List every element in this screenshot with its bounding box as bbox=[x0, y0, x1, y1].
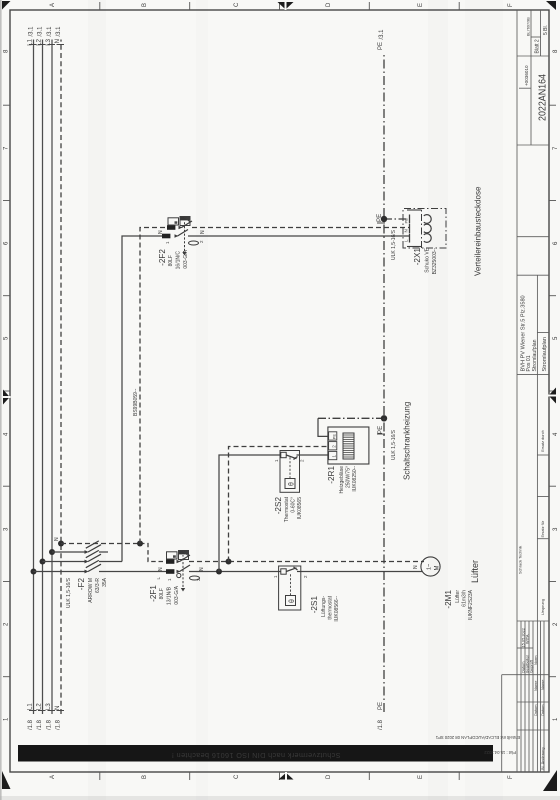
socket 2X1 N terminal bar bbox=[409, 224, 411, 233]
junction dot heater PE tap bbox=[381, 415, 387, 421]
svg-text:1~: 1~ bbox=[427, 564, 433, 570]
svg-text:61m3/h: 61m3/h bbox=[462, 590, 468, 607]
svg-text:35A: 35A bbox=[102, 577, 108, 587]
breaker 2F1 N blade bbox=[177, 555, 191, 563]
svg-text:Plot : 15.04.2022: Plot : 15.04.2022 bbox=[484, 750, 516, 755]
svg-text:L2: L2 bbox=[37, 703, 43, 710]
wire F2 pole2 out bbox=[99, 561, 122, 563]
svg-text:/1.8: /1.8 bbox=[37, 719, 43, 730]
svg-text:5: 5 bbox=[553, 336, 559, 340]
svg-text:-2X1: -2X1 bbox=[413, 248, 422, 266]
wire long L feed to 2F2 bbox=[122, 236, 162, 562]
svg-text:PE: PE bbox=[376, 214, 383, 222]
breaker 2F2 toroid coil bbox=[189, 241, 199, 245]
svg-text:PE: PE bbox=[378, 42, 384, 50]
junction dot heater L branch bbox=[216, 569, 222, 575]
junction dot heater N branch bbox=[226, 559, 232, 565]
svg-text:6: 6 bbox=[553, 241, 559, 245]
svg-text:E: E bbox=[418, 3, 424, 7]
socket 2X1 inner boundary line (dash-dot) bbox=[421, 209, 423, 249]
svg-text:003-G/A: 003-G/A bbox=[183, 249, 189, 268]
svg-text:ULK 1,5-16/S: ULK 1,5-16/S bbox=[391, 229, 397, 260]
wire F2 pole3 out stub bbox=[99, 551, 108, 553]
svg-text:8: 8 bbox=[553, 49, 559, 53]
svg-text:Norm: Norm bbox=[533, 655, 538, 665]
socket 2X1 L terminal bar bbox=[409, 234, 411, 243]
svg-text:PE: PE bbox=[378, 702, 384, 710]
svg-text:Ursprung: Ursprung bbox=[540, 599, 545, 615]
svg-text:Datum: Datum bbox=[540, 705, 545, 716]
breaker 2F2 N blade bbox=[179, 221, 193, 229]
svg-text:5: 5 bbox=[4, 336, 10, 340]
heater 2R1 terminal 1 bbox=[329, 451, 337, 459]
svg-text:Bl. Änderung: Bl. Änderung bbox=[540, 748, 545, 771]
svg-text:ULK 1,5-16/S: ULK 1,5-16/S bbox=[66, 577, 72, 608]
svg-text:2: 2 bbox=[331, 445, 336, 448]
svg-text:IUKNF2S23A: IUKNF2S23A bbox=[468, 589, 474, 620]
svg-text:1: 1 bbox=[167, 578, 172, 581]
junction dot L1 tap bbox=[31, 569, 37, 575]
svg-text:N: N bbox=[158, 567, 164, 571]
svg-text:16/1N/C: 16/1N/C bbox=[176, 251, 182, 270]
svg-text:Schrack Technik: Schrack Technik bbox=[518, 546, 523, 574]
svg-text:Thermostat: Thermostat bbox=[284, 496, 290, 522]
junction dot L3 tap bbox=[49, 549, 55, 555]
wire F2 pole3 drop from L3 bbox=[52, 551, 87, 553]
wire heater N branch (dashed) bbox=[229, 447, 329, 562]
socket 2X1 boundary (dash-dot) bbox=[403, 209, 446, 249]
svg-text:N: N bbox=[55, 706, 61, 710]
socket 2X1 L contact hook bbox=[424, 234, 431, 243]
wire long N feed to 2F2 (dashed) bbox=[140, 228, 167, 544]
svg-text:PE: PE bbox=[331, 434, 336, 440]
switch F2 pole3 blade bbox=[85, 541, 102, 554]
title block lines bbox=[502, 10, 549, 772]
svg-text:BZ325003--: BZ325003-- bbox=[432, 248, 438, 275]
svg-text:2: 2 bbox=[303, 575, 308, 578]
wire L3 bus bbox=[51, 40, 53, 715]
wire socket L drop bbox=[188, 235, 410, 237]
svg-text:/3.1: /3.1 bbox=[379, 29, 385, 40]
svg-text:/3.1: /3.1 bbox=[38, 26, 44, 37]
svg-text:63/3-R: 63/3-R bbox=[95, 578, 101, 593]
svg-text:M: M bbox=[435, 566, 441, 571]
svg-text:2: 2 bbox=[4, 622, 10, 626]
switch F2 pole2 blade bbox=[85, 550, 102, 563]
wire heater PE connection bbox=[318, 418, 329, 436]
svg-text:3: 3 bbox=[4, 527, 10, 531]
svg-text:+0036010: +0036010 bbox=[524, 65, 529, 86]
svg-text:IUK08250--: IUK08250-- bbox=[352, 466, 358, 492]
grid column ticks top bbox=[3, 105, 10, 677]
svg-text:C: C bbox=[234, 774, 240, 779]
svg-text:2: 2 bbox=[553, 622, 559, 626]
wire F2 pole1 out bbox=[99, 571, 166, 573]
svg-text:Lüftungs-: Lüftungs- bbox=[321, 596, 327, 617]
title text Datum row bbox=[521, 430, 545, 770]
wire F2 pole1 drop from L1 bbox=[34, 571, 88, 573]
wire heater L branch bbox=[219, 455, 281, 572]
svg-text:D: D bbox=[326, 2, 332, 7]
svg-text:003-G/A: 003-G/A bbox=[174, 585, 180, 604]
svg-text:-2M1: -2M1 bbox=[444, 590, 453, 609]
svg-text:N: N bbox=[55, 39, 61, 43]
grid column ticks bottom bbox=[549, 105, 556, 677]
svg-text:1: 1 bbox=[273, 575, 278, 578]
svg-text:1: 1 bbox=[165, 241, 170, 244]
svg-text:PE: PE bbox=[377, 426, 384, 434]
svg-text:/1.8: /1.8 bbox=[378, 719, 384, 730]
thermostat 2S1 contact bbox=[281, 567, 301, 574]
svg-text:/1.8: /1.8 bbox=[47, 719, 53, 730]
svg-text:θ: θ bbox=[289, 482, 296, 486]
svg-text:Datum: Datum bbox=[533, 705, 538, 716]
svg-text:WITA: WITA bbox=[525, 634, 530, 644]
svg-text:N: N bbox=[404, 229, 409, 232]
svg-text:7: 7 bbox=[553, 146, 559, 150]
fold mark triangle bottom-right corner bbox=[546, 1, 556, 10]
svg-text:250W/75°: 250W/75° bbox=[346, 466, 352, 488]
svg-text:3: 3 bbox=[553, 527, 559, 531]
svg-text:/1.8: /1.8 bbox=[56, 719, 62, 730]
svg-text:θ: θ bbox=[289, 599, 296, 603]
breaker 2F2 mechanical link bbox=[182, 221, 186, 256]
svg-text:0-60C°: 0-60C° bbox=[291, 497, 297, 513]
wire fan N path (dashed) bbox=[189, 561, 424, 563]
grid row labels left bbox=[50, 774, 514, 779]
heater 2R1 element bbox=[343, 433, 354, 459]
svg-text:-2F2: -2F2 bbox=[158, 249, 167, 266]
svg-text:Blatt 2: Blatt 2 bbox=[535, 39, 541, 53]
fold mark triangle left-center bbox=[279, 772, 294, 780]
svg-text:Verteilereinbausteckdose: Verteilereinbausteckdose bbox=[474, 186, 483, 276]
svg-text:5 Bl.: 5 Bl. bbox=[543, 25, 549, 35]
grid row ticks left bbox=[100, 772, 459, 780]
thermostat 2S2 link (dashed) bbox=[289, 457, 291, 479]
heater 2R1 terminal 2 bbox=[329, 442, 337, 450]
wire F2 pole2 drop from L2 bbox=[43, 561, 88, 563]
svg-text:B: B bbox=[142, 775, 148, 779]
svg-text:Ersatz für: Ersatz für bbox=[540, 520, 545, 537]
fold mark triangle right-center bbox=[278, 2, 294, 11]
wire L2 bus bbox=[42, 40, 44, 715]
junction dot socket PE tap bbox=[381, 216, 387, 222]
thermostat 2S1 link (dashed) bbox=[290, 573, 292, 596]
breaker 2F2 trip box bbox=[180, 217, 190, 226]
wire N bus (dashed) bbox=[60, 40, 62, 715]
switch F2 pole1 blade bbox=[85, 560, 102, 573]
svg-text:2: 2 bbox=[199, 240, 204, 243]
breaker 2F1 coil bbox=[177, 573, 181, 577]
svg-text:4: 4 bbox=[553, 432, 559, 436]
svg-text:BS99B059--: BS99B059-- bbox=[133, 388, 139, 416]
svg-text:Schuko VE: Schuko VE bbox=[425, 247, 431, 272]
svg-text:Lüfter: Lüfter bbox=[455, 590, 461, 603]
socket 2X1 side bars bbox=[407, 246, 422, 248]
svg-text:N: N bbox=[413, 565, 419, 569]
svg-text:IUK08565: IUK08565 bbox=[297, 497, 303, 519]
svg-text:2: 2 bbox=[196, 578, 201, 581]
svg-text:A: A bbox=[50, 775, 56, 779]
svg-text:F: F bbox=[508, 3, 514, 7]
breaker 2F1 test box bbox=[167, 552, 178, 559]
svg-text:thermostat: thermostat bbox=[328, 595, 334, 619]
svg-text:2: 2 bbox=[300, 459, 305, 462]
svg-text:6: 6 bbox=[4, 241, 10, 245]
svg-text:B: B bbox=[142, 3, 148, 7]
svg-text:E: E bbox=[418, 775, 424, 779]
svg-text:IUK08566--: IUK08566-- bbox=[334, 596, 340, 622]
thermostat 2S1 box bbox=[279, 566, 301, 610]
svg-text:Erstellt mit ELCAD/AUCOPLAN 08: Erstellt mit ELCAD/AUCOPLAN 08 2020 SP1 bbox=[435, 735, 520, 740]
socket 2X1 PE terminal bar bbox=[409, 215, 411, 224]
svg-text:13/1N/B: 13/1N/B bbox=[167, 586, 173, 605]
fold mark triangle top-center bbox=[3, 390, 11, 405]
junction dot N tap bbox=[58, 541, 64, 547]
thermostat 2S1 sensor box bbox=[286, 596, 297, 606]
svg-text:Stromlaufplan: Stromlaufplan bbox=[532, 339, 538, 371]
svg-text:L3: L3 bbox=[46, 703, 52, 710]
svg-text:1: 1 bbox=[4, 717, 10, 721]
svg-text:1: 1 bbox=[331, 455, 336, 458]
svg-text:N: N bbox=[158, 230, 164, 234]
grid row ticks right bbox=[100, 2, 459, 10]
breaker 2F1 N terminal bbox=[166, 559, 174, 564]
fold mark triangle top-right corner bbox=[2, 1, 11, 10]
PE bus (dash-dot) bbox=[383, 52, 385, 712]
svg-text:-2F1: -2F1 bbox=[149, 585, 158, 602]
svg-text:2022AN164: 2022AN164 bbox=[538, 74, 549, 121]
svg-text:PE: PE bbox=[404, 218, 409, 224]
wire N drop (dashed) bbox=[61, 543, 140, 545]
svg-text:/3.1: /3.1 bbox=[56, 26, 62, 37]
wire socket PE drop (dash-dot) bbox=[384, 218, 410, 220]
svg-text:N: N bbox=[200, 230, 206, 234]
wire heater PE riser (dash-dot) bbox=[318, 417, 384, 419]
svg-text:8: 8 bbox=[4, 49, 10, 53]
thermostat 2S2 contact bbox=[281, 452, 300, 459]
svg-text:80LF: 80LF bbox=[159, 588, 165, 599]
svg-text:ULK 1,5-16/S: ULK 1,5-16/S bbox=[391, 429, 397, 460]
svg-text:Lüfter: Lüfter bbox=[470, 560, 480, 583]
svg-text:L: L bbox=[156, 577, 161, 580]
thermostat 2S2 box bbox=[280, 451, 300, 493]
grid column labels bottom bbox=[553, 49, 559, 721]
breaker 2F1 L blade bbox=[177, 565, 191, 573]
svg-text:1: 1 bbox=[274, 459, 279, 462]
wire L1 bus bbox=[33, 40, 35, 715]
svg-text:Ersatz durch: Ersatz durch bbox=[540, 430, 545, 452]
heater 2R1 box bbox=[328, 427, 369, 464]
svg-text:4: 4 bbox=[4, 432, 10, 436]
wire 2S2 to heater bbox=[300, 454, 329, 456]
svg-text:/1.8: /1.8 bbox=[28, 719, 34, 730]
fold mark triangle top-left corner bbox=[2, 771, 11, 789]
svg-text:Stromlaufplan: Stromlaufplan bbox=[542, 337, 548, 372]
socket 2X1 PE contact hook bbox=[424, 215, 431, 224]
svg-text:Schaltschrankheizung: Schaltschrankheizung bbox=[403, 402, 412, 480]
svg-text:L1: L1 bbox=[28, 703, 34, 710]
svg-text:7: 7 bbox=[4, 146, 10, 150]
breaker 2F1 trip box bbox=[179, 551, 189, 560]
svg-text:L: L bbox=[404, 239, 409, 242]
svg-text:N: N bbox=[54, 537, 60, 541]
breaker 2F2 L terminal bbox=[162, 234, 170, 239]
heater 2R1 terminal PE bbox=[329, 432, 337, 440]
breaker 2F1 toroid coil bbox=[190, 576, 200, 580]
breaker 2F1 L terminal bbox=[166, 569, 174, 574]
svg-text:BL7697/9B: BL7697/9B bbox=[527, 17, 531, 36]
svg-text:Name: Name bbox=[540, 680, 545, 690]
grid column labels top bbox=[4, 49, 10, 721]
svg-text:C: C bbox=[234, 2, 240, 7]
wire socket N drop (dashed) bbox=[192, 227, 410, 229]
svg-text:-2S2: -2S2 bbox=[274, 497, 283, 515]
breaker 2F2 test box bbox=[168, 218, 179, 225]
Schutzvermerk bar bbox=[18, 745, 493, 762]
svg-text:/3.1: /3.1 bbox=[29, 26, 35, 37]
svg-text:-2R1: -2R1 bbox=[327, 466, 336, 484]
svg-text:F: F bbox=[508, 775, 514, 779]
breaker 2F1 mechanical link bbox=[181, 555, 185, 592]
svg-text:ARROW M: ARROW M bbox=[88, 578, 94, 603]
wire fan L path bbox=[189, 571, 281, 573]
motor 2M1 circle bbox=[421, 557, 441, 576]
thermostat 2S2 sensor box bbox=[285, 479, 296, 489]
svg-text:Name: Name bbox=[533, 681, 538, 691]
breaker 2F2 N terminal bbox=[167, 225, 175, 230]
svg-text:-F2: -F2 bbox=[77, 578, 86, 591]
svg-text:D: D bbox=[326, 774, 332, 779]
junction dot N branch split bbox=[137, 541, 143, 547]
junction dot L2 tap bbox=[40, 559, 46, 565]
svg-text:N: N bbox=[199, 567, 205, 571]
wire 2F1 N feed jog (dashed) bbox=[140, 544, 165, 562]
svg-text:Heizgebläse: Heizgebläse bbox=[339, 466, 345, 494]
socket 2X1 N contact hook bbox=[424, 224, 431, 233]
svg-text:1: 1 bbox=[553, 717, 559, 721]
grid row labels right bbox=[50, 2, 514, 7]
svg-text:A: A bbox=[50, 3, 56, 7]
svg-text:/3.1: /3.1 bbox=[47, 26, 53, 37]
breaker 2F2 L blade bbox=[175, 230, 189, 238]
fold mark triangle bottom-left corner bbox=[543, 770, 557, 791]
fold mark triangle bottom-center bbox=[548, 388, 557, 404]
svg-text:80LF: 80LF bbox=[168, 255, 174, 266]
wire fan L into motor bbox=[301, 571, 422, 573]
svg-text:Schutzvermerk nach DIN ISO 160: Schutzvermerk nach DIN ISO 16016 beachte… bbox=[171, 751, 340, 760]
svg-text:-2S1: -2S1 bbox=[310, 596, 319, 614]
